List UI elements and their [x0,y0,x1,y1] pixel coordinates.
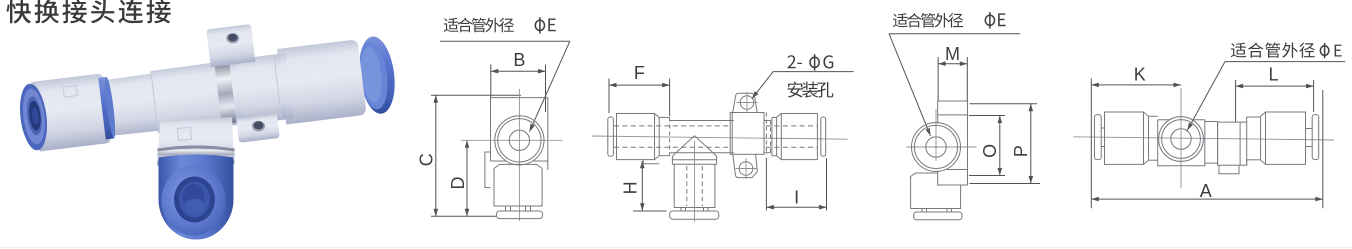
photo branch port [157,117,234,166]
svg-text:O: O [980,144,1000,158]
bottom faint rule [0,247,1352,249]
view1 h centerline [461,139,562,141]
view4 flange tab below [1219,165,1239,174]
view4 centerline [1073,137,1334,140]
view1 leg left a [505,206,507,211]
view2 label 2-φG [788,55,802,68]
view3 O ext bottom [969,175,1005,177]
view2 branch leg a [680,208,682,212]
view2 branch leg c [703,208,705,212]
view2 bore dashed bottom [614,146,731,148]
view1 leader arrow [530,124,535,132]
view2 hole top crosshair h [737,102,758,104]
view4 outer circle [1159,117,1204,162]
view1 label 适合管外径φE [444,18,514,33]
view2 I ext left [765,158,767,211]
view1 leg right b [530,206,532,211]
view4 K dim line [1091,84,1181,86]
view3 O arrow top [998,116,1003,124]
view2 flange mid inner line [731,113,733,155]
view4 L arrow left [1236,84,1244,89]
view1 v centerline [518,89,520,221]
view3 leader arrow [926,128,931,136]
view2 I arrow right [819,205,827,210]
view4 left cap connector top [1101,127,1104,129]
view2 branch collar band [672,153,716,164]
view2 flange hidden edge [765,113,767,156]
view2 phi symbol [810,54,819,70]
view2 hole bottom crosshair v [745,158,747,179]
view1 leader line [530,41,570,131]
svg-text:M: M [945,44,960,64]
svg-text:F: F [634,63,645,83]
view4 leader line [1187,62,1225,131]
view1 B ext left [490,65,492,98]
view3 leader line [889,34,931,136]
view2 branch leg b [685,208,687,212]
view2 branch collar [674,164,715,207]
view1 B arrow left [491,69,499,74]
view1 body bottom left seg [491,160,506,162]
view1 C arrow bottom [434,209,439,217]
view2 branch shoulder triangle [676,136,714,153]
view3 P ext top [970,103,1038,105]
view1 bottom cap [497,211,543,219]
view4 left neck bottom [1149,159,1158,161]
view1 leg left b [510,206,512,211]
view2 H arrow bottom [640,203,645,211]
view1 leg right a [525,206,527,211]
view1 D arrow bottom [465,209,470,217]
view3 bore circle [926,137,946,157]
view2 leader line [752,72,773,99]
view4 bore circle [1171,129,1191,149]
view2 left stop ring [608,117,614,156]
view4 right neck bottom [1247,159,1261,161]
view3 leg a [921,209,923,213]
view3 label 适合管外径φE [893,13,963,28]
view3 P arrow top [1029,104,1034,112]
view4 flange block inner [1239,122,1241,165]
view3 M dim line [938,63,967,65]
view3 O ext top [969,115,1005,117]
view4 left neck top [1149,115,1158,117]
svg-text:L: L [1268,65,1278,85]
view4 right section bottom [1205,162,1218,164]
view2 flange mid [730,113,764,155]
view4 left collar [1105,112,1149,164]
view3 bottom cap [914,212,962,220]
view2 step hidden edge left [669,117,671,155]
view3 O arrow bottom [998,168,1003,176]
view1 phi symbol [535,17,544,33]
view2 left collar bevel junction [654,114,656,160]
view2 right collar bevel junction [780,114,782,160]
view2 F ext right [669,79,671,117]
view4 right cap connector bottom [1306,146,1313,148]
view1 B dim line [491,70,546,72]
view3 label underline [889,33,1020,35]
view3 M arrow right [960,61,968,66]
view4 L dim line [1236,85,1314,87]
view1 C ext bottom [431,215,496,217]
view1 D arrow top [465,140,470,148]
view3 v centerline [935,109,937,161]
view3 M ext right [966,57,968,101]
svg-text:H: H [621,181,641,194]
svg-text:B: B [513,50,525,70]
view4 label underline [1225,61,1345,63]
view2 label underline [773,71,854,73]
view4 right cap connector top [1306,128,1313,130]
view2 hole top crosshair v [746,92,748,113]
view4 L ext right [1313,80,1315,112]
view3 M ext left [937,57,939,101]
view4 label 适合管外径φE [1231,42,1315,57]
view4 left collar bevel junction [1143,112,1145,164]
view1 label underline [440,40,570,42]
svg-text:C: C [416,153,436,166]
view2 right neck bottom [772,155,777,157]
photo mounting tabs [206,22,280,145]
view3 M arrow left [938,61,946,66]
view2 I ext right [826,158,828,211]
view4 branch centerline [1180,88,1182,188]
view2 branch band bottom [672,163,716,165]
view4 right cap [1312,115,1319,160]
view4 K arrow right [1174,83,1182,88]
view1 B ext right [545,65,547,113]
view3 mid circle [914,125,957,168]
view4 L arrow right [1306,84,1314,89]
view2 leader arrow [752,91,758,98]
view2 branch leg d [707,208,709,212]
view2 label 安装孔 [788,82,834,98]
view2 hole bottom crosshair h [736,168,757,170]
svg-text:D: D [448,177,468,190]
view1 body square [491,98,548,170]
view2 bore dashed top right [766,125,817,127]
view2 branch band top [672,159,716,161]
view2 body step hidden [770,121,772,153]
view1 mid circle [498,119,541,162]
view1 C ext top [431,94,521,96]
view1 B arrow right [538,69,546,74]
view4 right collar bevel junction [1265,112,1267,164]
view2 bore dashed bottom right [766,146,817,148]
view3 flange plate edge-on [938,101,968,185]
view1 bore circle [509,130,529,150]
view3 O dim line [999,116,1001,176]
view4 flange block [1218,122,1247,165]
view2 collar bottom step [643,160,659,164]
view2 right neck edge [771,117,773,155]
view3 leg d [951,209,953,213]
view1 D dim line [466,140,468,216]
view2 H ext bottom [633,210,667,212]
view4 mid circle [1162,120,1201,159]
view2 body bottom right [764,152,771,154]
view2 body bottom [670,152,734,154]
view1 C dim line [435,95,437,216]
svg-text:K: K [1134,65,1146,85]
svg-text:I: I [794,188,799,208]
view4 right collar [1261,112,1306,164]
view3 flange ear line top [938,114,968,116]
view2 I dim line [766,206,826,208]
view4 leader arrow [1187,123,1193,131]
view4 A arrow right [1315,197,1323,202]
view2 F ext left [608,79,610,114]
view1 outer circle [495,116,544,165]
view2 centerline [592,136,848,139]
view1 body bottom right seg [533,160,548,162]
view2 F arrow left [609,83,617,88]
photo left port blue ring [17,82,51,152]
view2 F dim line [609,84,670,86]
view3 phi symbol [985,12,994,28]
view3 flange ear line bottom [946,169,968,171]
view4 A ext right [1322,90,1324,208]
view4 left cap connector bottom [1101,146,1104,148]
view4 A arrow left [1091,197,1099,202]
view2 right stop ring [821,117,826,156]
view3 P arrow bottom [1029,176,1034,184]
view3 P dim line [1030,104,1032,184]
view2 flange bottom ear [733,154,758,177]
view2 mounting hole bottom [739,162,753,176]
view3 leg b [926,209,928,213]
view2 branch centerline [694,141,696,222]
view3 P ext bottom [970,183,1041,185]
view2 right neck top [772,116,777,118]
svg-text:A: A [1200,181,1212,201]
view2 mounting hole top [740,96,754,110]
view2 H dim line [641,161,643,211]
view4 A dim line [1091,198,1323,200]
view2 F arrow right [662,83,670,88]
photo tube assembly [16,35,399,158]
view2 right collar [777,114,818,160]
view2 left collar [617,114,660,160]
view2 branch bore dash right [701,166,703,206]
title 快换接头连接 [6,0,170,24]
view4 K arrow left [1091,83,1099,88]
view1 flange tab left [485,152,491,188]
view4 center square [1158,120,1205,166]
view2 branch bore dash left [686,166,688,206]
view4 phi symbol [1320,43,1329,58]
view3 release collar [911,173,961,209]
view4 step edge a [1246,117,1248,122]
view4 step edge b [1246,160,1248,165]
view2 body top right [764,120,771,122]
svg-text:P: P [1011,145,1031,157]
view4 right neck top [1247,116,1261,118]
view4 left cap [1095,115,1102,160]
view4 A-K ext left [1090,79,1092,209]
view2 I arrow left [766,205,774,210]
view4 L ext left [1235,80,1237,122]
view3 outer circle [912,123,961,172]
view3 leg c [946,209,948,213]
view2 left neck [659,116,669,118]
view2 flange top ear [733,93,757,112]
view3 h centerline [906,146,977,148]
view2 branch cap [670,211,719,219]
view2 bore dashed top [614,125,731,127]
view4 flange block left [1217,122,1219,166]
view1 C arrow top [434,95,439,103]
view2 body top [670,120,734,122]
view1 release collar [494,164,542,206]
view2 H arrow top [640,161,645,169]
view4 right section top [1205,121,1218,123]
